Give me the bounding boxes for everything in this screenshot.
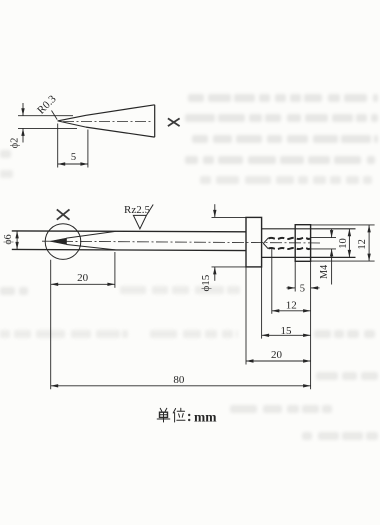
caption unit label [157, 408, 185, 422]
dimension 20 taper [51, 272, 115, 286]
M4 stud extension lines [311, 238, 336, 249]
svg-text:ϕ15: ϕ15 [200, 274, 212, 291]
neck section dia10 bottom edge [262, 256, 356, 258]
svg-text:20: 20 [77, 272, 89, 284]
svg-text:15: 15 [281, 325, 293, 337]
extension line flange right [261, 267, 263, 339]
end block dia12 outline [295, 225, 310, 262]
pin body bottom edge [12, 249, 246, 250]
svg-text:20: 20 [271, 349, 283, 361]
main view label X [57, 209, 70, 219]
extension line flange left [245, 267, 247, 365]
taper to body [67, 231, 116, 250]
dimension 12 (dia) [357, 225, 371, 261]
dimension 20 (right) [246, 349, 311, 363]
dimension M4 [319, 229, 333, 285]
dimension 80 overall [51, 374, 311, 388]
detail view label X [168, 118, 180, 126]
pin body top edge [12, 230, 246, 233]
svg-text:M4: M4 [319, 265, 330, 279]
dimension phi6 [3, 231, 19, 250]
dimension 15 [262, 325, 311, 337]
svg-text:5: 5 [300, 284, 305, 295]
svg-text:12: 12 [286, 300, 297, 312]
label R0.3 with leader [35, 93, 59, 120]
dimension 5 (tip length) [58, 124, 88, 168]
neck section dia10 top edge [262, 228, 356, 230]
main center line [42, 241, 322, 243]
svg-text:10: 10 [338, 238, 349, 249]
dimension phi15 [200, 204, 246, 291]
svg-text:12: 12 [357, 239, 368, 250]
tip point wedge [50, 238, 66, 244]
extension line block left [294, 261, 296, 291]
detail circle X [45, 224, 81, 260]
dimension 5 [287, 284, 320, 295]
svg-text:ϕ6: ϕ6 [3, 234, 14, 244]
dimension phi2 [10, 103, 77, 148]
detail view center line [63, 121, 153, 123]
detail view taper outline [86, 105, 155, 137]
caption colon and mm [188, 410, 217, 425]
dimension 10 [338, 229, 351, 258]
svg-text:80: 80 [173, 374, 185, 386]
extension line taper end [114, 252, 116, 288]
dimension 12 (thread) [272, 300, 311, 313]
svg-text:5: 5 [71, 152, 76, 163]
faint bleed-through text rows [0, 94, 378, 440]
block edge extension lines for 12 [311, 225, 375, 261]
svg-text:mm: mm [194, 410, 217, 425]
M4 thread hidden lines [263, 238, 310, 249]
svg-text:ϕ2: ϕ2 [10, 138, 21, 149]
extension line thread depth [271, 249, 273, 314]
detail view tip cone outline [58, 115, 86, 127]
extension line at tip (left, long) [50, 260, 52, 390]
flange phi15 outline [246, 217, 262, 267]
extension line right face (long) [310, 261, 312, 389]
surface finish Rz2.5 [124, 204, 153, 229]
